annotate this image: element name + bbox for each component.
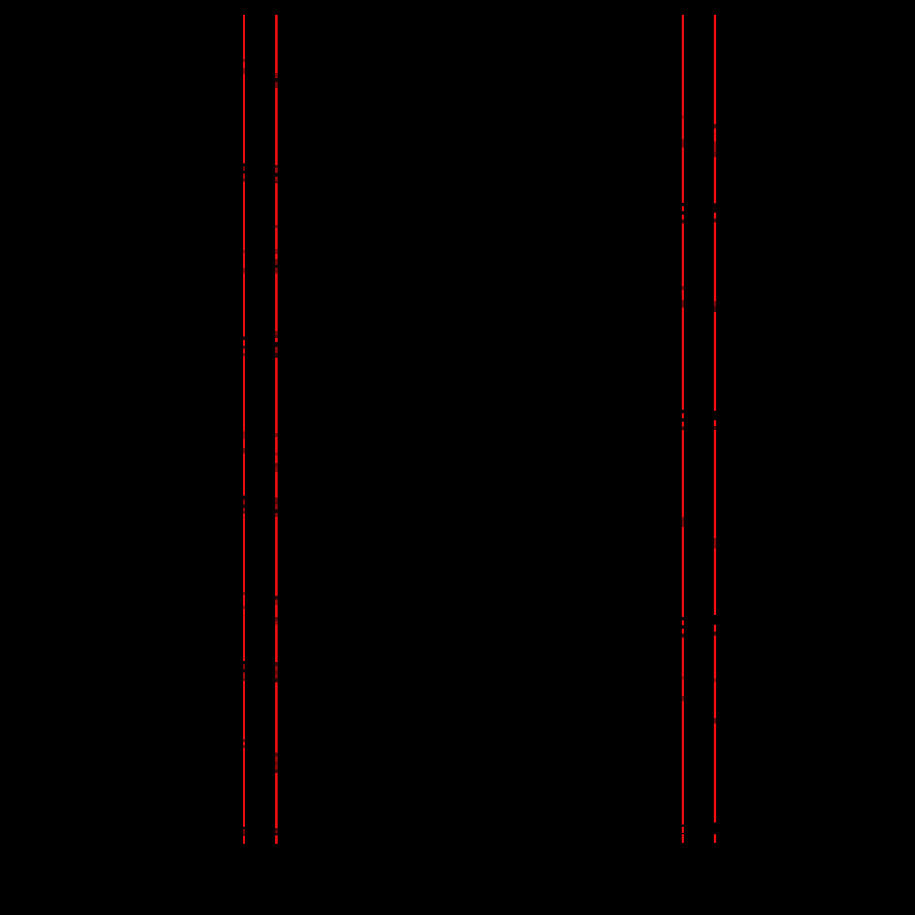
left panel lower-quantile red abline (line 1) <box>243 15 245 844</box>
right panel upper-quantile red abline (line 4) <box>714 15 716 843</box>
occlusion gaps where black density curve crosses line 3 <box>681 115 684 834</box>
left panel upper-quantile red abline (line 2) <box>275 15 278 844</box>
occlusion gaps where black density curve crosses line 2 <box>275 73 279 835</box>
occlusion gaps where black density curve crosses line 1 <box>243 59 246 836</box>
occlusion gaps where black density curve crosses line 4 <box>713 124 716 834</box>
right panel lower-quantile red abline (line 3) <box>682 15 684 843</box>
